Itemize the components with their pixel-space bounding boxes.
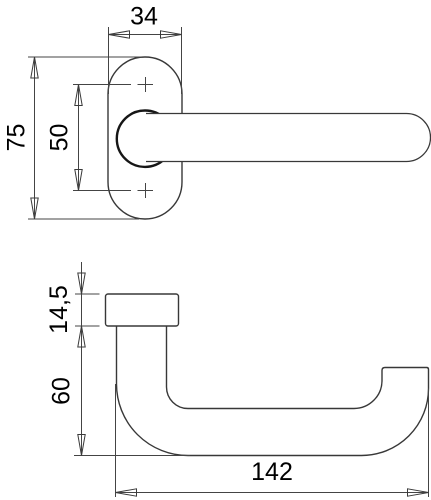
dimension 50: extension line bottom bbox=[73, 190, 131, 192]
dimension 75: arrow bottom bbox=[31, 198, 38, 219]
svg-text:142: 142 bbox=[251, 458, 293, 486]
svg-text:75: 75 bbox=[3, 124, 31, 152]
dimension 34: arrow left bbox=[109, 31, 130, 38]
side view: rosette base bbox=[106, 294, 179, 326]
side view: handle grip outline bbox=[117, 326, 429, 456]
dimension 34: extension line right bbox=[181, 27, 183, 94]
handle neck circle bbox=[117, 111, 173, 167]
svg-text:34: 34 bbox=[130, 3, 158, 31]
dimension 75: extension line top bbox=[28, 56, 142, 58]
dimension 75: arrow top bbox=[31, 57, 38, 78]
dimension 60: extension line bottom bbox=[74, 455, 190, 457]
dimension 75: dimension line bbox=[34, 57, 36, 219]
dimension 14,5: arrow bottom / 60 arrow top bbox=[78, 326, 85, 347]
screw hole cross top bbox=[138, 77, 154, 92]
dimension 50: arrow top bbox=[75, 85, 82, 106]
dimension 50: extension line top bbox=[73, 84, 131, 86]
dimension 142: arrow left bbox=[116, 489, 137, 496]
top view: oval rosette bbox=[108, 57, 182, 219]
dimension 14,5: extension line top bbox=[75, 293, 100, 295]
dimension 50: arrow bottom bbox=[75, 170, 82, 191]
dimension 14,5: extension line bottom bbox=[75, 325, 100, 327]
dimension 34: dimension line bbox=[109, 34, 182, 36]
dimension 142: dimension line bbox=[116, 492, 429, 494]
dimension 34: extension line left bbox=[108, 27, 110, 94]
dimension 60: arrow bottom bbox=[78, 435, 85, 456]
svg-text:50: 50 bbox=[46, 124, 74, 152]
dimension 14,5 and 60: shared dimension line bbox=[81, 262, 83, 456]
dimension 50: dimension line bbox=[78, 85, 80, 191]
dimension 14,5: arrow top bbox=[78, 273, 85, 294]
dimension 34: arrow right bbox=[161, 31, 182, 38]
screw hole cross bottom bbox=[138, 183, 154, 198]
svg-text:60: 60 bbox=[48, 377, 76, 405]
dimension 75: extension line bottom bbox=[28, 218, 139, 220]
dimension 142: extension line left bbox=[115, 384, 117, 497]
dimension 142: arrow right bbox=[408, 489, 429, 496]
handle lever (top view) bbox=[146, 114, 431, 162]
svg-text:14,5: 14,5 bbox=[45, 285, 73, 334]
dimension 142: extension line right bbox=[428, 389, 430, 498]
